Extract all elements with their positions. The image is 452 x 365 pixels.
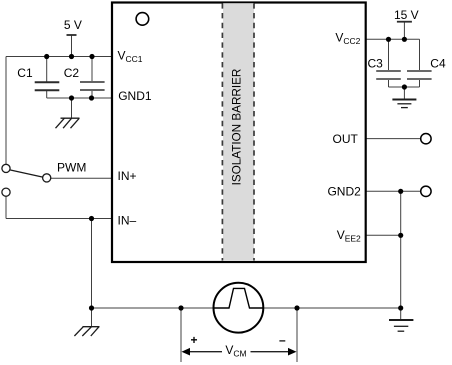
- svg-text:GND2: GND2: [327, 185, 361, 199]
- svg-text:5 V: 5 V: [64, 18, 82, 32]
- svg-text:C2: C2: [64, 66, 80, 80]
- svg-text:GND1: GND1: [118, 89, 152, 103]
- svg-text:C4: C4: [430, 56, 446, 70]
- svg-text:IN–: IN–: [118, 213, 137, 227]
- svg-text:OUT: OUT: [333, 132, 359, 146]
- svg-text:C3: C3: [368, 56, 384, 70]
- svg-text:+: +: [190, 333, 197, 347]
- svg-text:C1: C1: [17, 66, 33, 80]
- svg-text:ISOLATION BARRIER: ISOLATION BARRIER: [230, 69, 243, 186]
- svg-text:15 V: 15 V: [394, 8, 419, 22]
- svg-text:PWM: PWM: [57, 161, 86, 175]
- svg-text:IN+: IN+: [118, 169, 137, 183]
- svg-text:–: –: [279, 333, 286, 347]
